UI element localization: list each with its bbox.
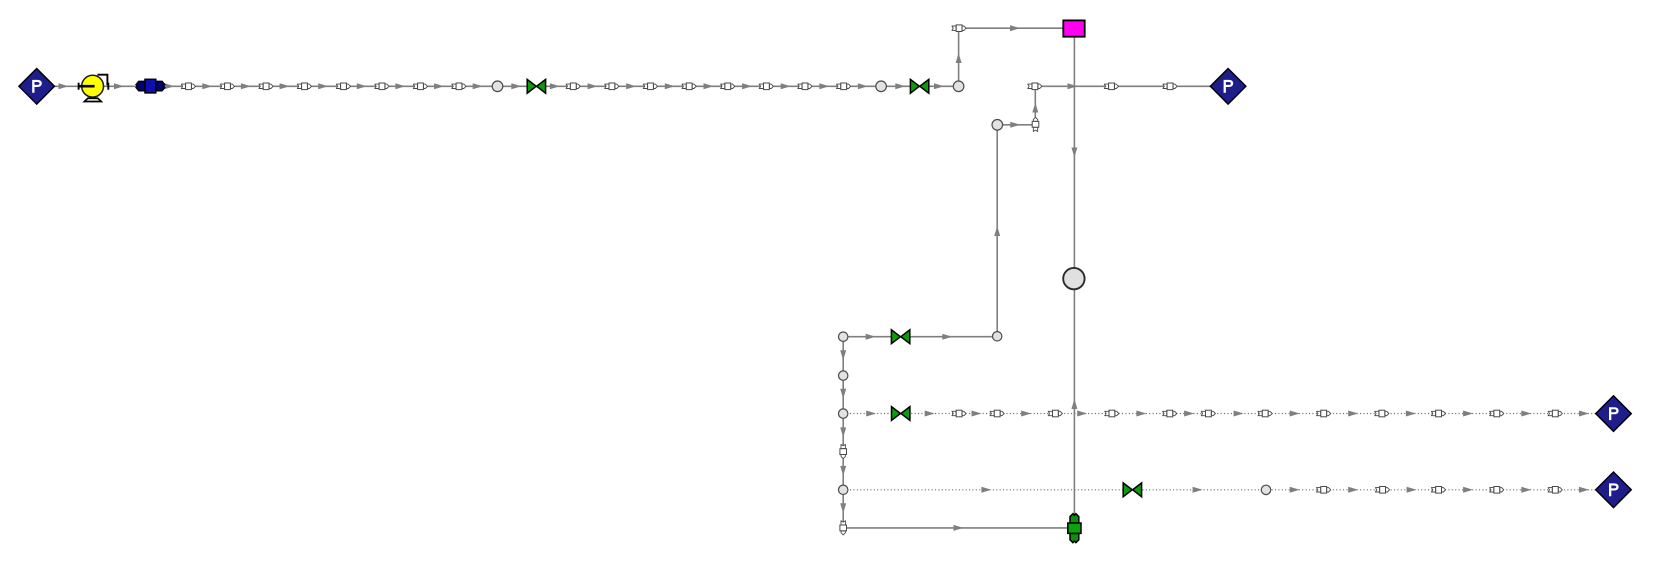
fitting symbol on main pipe	[336, 83, 350, 90]
wire riser from junction J10 up to fitting	[958, 28, 960, 86]
wire pipe to reservoir square	[959, 27, 1064, 29]
pressure junction J1 (inlet P diamond)	[19, 69, 55, 105]
junction node on main pipe at x881	[876, 81, 887, 92]
flow arrow on dotted pipe 1	[1136, 411, 1146, 417]
flow arrow on dotted pipe 2	[1290, 487, 1300, 493]
fitting symbol on main pipe	[566, 83, 580, 90]
flow arrow on dotted pipe 1	[1290, 411, 1300, 417]
fitting symbol on dotted pipe 2	[1548, 487, 1562, 494]
pressure junction J6 (dotted pipe 2 end P diamond)	[1596, 472, 1632, 508]
flow arrow on branch to tee	[1010, 122, 1020, 128]
reservoir (magenta square)	[1063, 20, 1084, 36]
flow arrow on dotted pipe 1	[972, 411, 982, 417]
junction node on dotted pipe 2 at x1266	[1261, 485, 1270, 494]
fitting symbol on main pipe	[220, 83, 234, 90]
flow arrow on pipe J13-J12	[866, 334, 876, 340]
fitting symbol on main pipe	[605, 83, 619, 90]
flow arrow on dotted pipe 1	[1348, 411, 1358, 417]
flow arrow on main pipe	[395, 83, 405, 89]
valve J18 on dotted pipe 2	[1123, 483, 1141, 497]
flow arrow on main pipe	[550, 83, 560, 89]
fitting symbol on main pipe	[837, 83, 851, 90]
fitting symbol on dotted pipe 1	[1258, 410, 1272, 417]
fitting symbol on pipe to J4	[1104, 83, 1118, 90]
flow arrow on dotted pipe 2	[1407, 487, 1417, 493]
flow arrow on dotted pipe 2	[1193, 487, 1203, 493]
component J3 (navy inline component)	[136, 79, 165, 93]
branch junction J19 large node on vertical pipe	[1063, 268, 1084, 289]
flow arrow on main pipe	[114, 83, 124, 89]
wire main pipe P1 horizontal run	[164, 85, 959, 87]
flow arrow on main pipe	[280, 83, 290, 89]
flow arrow on main pipe	[511, 83, 521, 89]
junction node on main pipe at x497	[492, 81, 503, 92]
flow arrow on main pipe	[241, 83, 251, 89]
fitting symbol on dotted pipe 1	[990, 410, 1004, 417]
fitting symbol on main pipe	[259, 83, 273, 90]
fitting symbol on dotted pipe 2	[1317, 487, 1331, 494]
flow arrow on dotted pipe 2	[1348, 487, 1358, 493]
junction node J12 corner	[993, 332, 1002, 341]
fitting symbol vertical on left chain	[840, 444, 847, 458]
flow arrow on dotted pipe 2	[1521, 487, 1531, 493]
junction node J10 corner of riser	[953, 81, 964, 92]
flow arrow down on left chain	[840, 389, 846, 399]
wire pipe from pump J2 to component J3	[104, 85, 137, 87]
flow arrow on main pipe	[819, 83, 829, 89]
flow arrow on pipe to junction J4	[1068, 83, 1078, 89]
flow arrow on main pipe	[742, 83, 752, 89]
wire dotted pipe from junction J15 to junction J5	[843, 413, 1596, 415]
flow arrow on dotted pipe 2	[1463, 487, 1473, 493]
flow arrow on dotted pipe 1	[1579, 411, 1589, 417]
fitting symbol at tee on pipe to J4	[1028, 83, 1042, 90]
flow arrow up on tee riser	[1032, 103, 1038, 113]
flow arrow down on left chain	[840, 427, 846, 437]
flow arrow on main pipe	[665, 83, 675, 89]
fitting symbol on main pipe	[375, 83, 389, 90]
pump J2	[79, 75, 109, 102]
flow arrow on dotted pipe 1	[1021, 411, 1031, 417]
junction node J13	[839, 332, 848, 341]
flow arrow on main pipe	[473, 83, 483, 89]
flow arrow on dotted pipe 2	[1579, 487, 1589, 493]
valve J9 on main pipe	[910, 79, 928, 93]
fitting symbol on dotted pipe 1	[1201, 410, 1215, 417]
flow arrow on dotted pipe 1	[1234, 411, 1244, 417]
flow arrow on main pipe	[318, 83, 328, 89]
flow arrow on pipe J13-J12 second	[942, 334, 952, 340]
wire branch from junction J11 to tee	[997, 124, 1035, 126]
flow arrow on main pipe	[895, 83, 905, 89]
flow arrow on main pipe	[858, 83, 868, 89]
flow arrow on dotted pipe 1	[1463, 411, 1473, 417]
junction node J15 start of dotted pipe 1	[839, 409, 848, 418]
wire vertical pipe from junction J11 down to junction J12	[996, 125, 998, 336]
wire riser from tee up to pipe at top	[1034, 86, 1036, 125]
fitting symbol on main pipe	[798, 83, 812, 90]
valve J8 on main pipe	[527, 79, 545, 93]
flow arrow on dotted pipe 1	[1406, 411, 1416, 417]
fitting symbol on dotted pipe 2	[1490, 487, 1504, 494]
flow arrow on dotted pipe 1	[1521, 411, 1531, 417]
flow arrow on dotted pipe 1	[866, 411, 876, 417]
fitting symbol near reservoir	[952, 25, 966, 32]
fitting symbol on dotted pipe 1	[1490, 410, 1504, 417]
flow arrow on main pipe	[59, 83, 69, 89]
flow arrow up between junctions J12 and J11	[994, 226, 1000, 236]
fitting symbol on dotted pipe 1	[952, 410, 966, 417]
fitting symbol on dotted pipe 1	[1431, 410, 1445, 417]
wire pipe from junction J1 to pump J2	[54, 85, 82, 87]
junction node J17 start of dotted pipe 2	[839, 485, 848, 494]
fitting symbol on main pipe	[721, 83, 735, 90]
fitting symbol on main pipe	[682, 83, 696, 90]
flow arrow on main pipe	[781, 83, 791, 89]
flow arrow toward reservoir	[1010, 25, 1020, 31]
fitting symbol on main pipe	[297, 83, 311, 90]
flow arrow on main pipe	[704, 83, 714, 89]
pressure junction J5 (dotted pipe 1 end P diamond)	[1596, 396, 1632, 432]
fitting symbol on dotted pipe 1	[1375, 410, 1389, 417]
flow arrow on main pipe	[934, 83, 944, 89]
flow arrow down on left chain	[840, 350, 846, 360]
fitting symbol on dotted pipe 1	[1163, 410, 1177, 417]
valve J14 on pipe J13-J12	[891, 330, 909, 344]
wire pipe to junction J4 at right	[1035, 85, 1211, 87]
fitting symbol on pipe to J4 second	[1163, 83, 1177, 90]
fitting symbol on dotted pipe 1	[1548, 410, 1562, 417]
wire dotted pipe from junction J17 to junction J6	[843, 489, 1596, 491]
valve J16 on dotted pipe 1	[892, 407, 910, 421]
fitting symbol on dotted pipe 2	[1431, 487, 1445, 494]
wire vertical pipe chain on left from junction J13 down	[842, 337, 844, 528]
wire bottom pipe from corner fitting to component J20	[843, 527, 1068, 529]
flow arrow on main pipe	[202, 83, 212, 89]
pressure junction J4 (right P diamond)	[1210, 69, 1246, 105]
fitting symbol on dotted pipe 1	[1048, 410, 1062, 417]
fitting symbol on main pipe	[643, 83, 657, 90]
fitting symbol vertical at bottom corner	[840, 521, 847, 535]
junction node on left chain x843 y375	[839, 371, 848, 380]
flow arrow on dotted pipe 1	[925, 411, 935, 417]
flow arrow on dotted pipe 1	[1077, 411, 1087, 417]
flow arrow on main pipe	[626, 83, 636, 89]
flow arrow down on left chain	[840, 503, 846, 513]
flow arrow on main pipe	[588, 83, 598, 89]
fitting symbol on main pipe	[413, 83, 427, 90]
fitting symbol on main pipe	[181, 83, 195, 90]
flow arrow on main pipe	[165, 83, 175, 89]
flow arrow down on left chain	[840, 466, 846, 476]
flow arrow on main pipe	[357, 83, 367, 89]
component J20 (green vertical component at bottom)	[1068, 514, 1081, 543]
junction node J11	[992, 120, 1003, 131]
wire pipe from junction J13 to junction J12	[843, 336, 997, 338]
fitting symbol on dotted pipe 1	[1317, 410, 1331, 417]
fitting symbol on main pipe	[452, 83, 466, 90]
wire main vertical pipe from reservoir down to component J20	[1073, 37, 1075, 514]
fitting symbol on dotted pipe 2	[1375, 487, 1389, 494]
fitting symbol vertical on tee riser	[1032, 117, 1039, 131]
flow arrow up on main vertical pipe	[1071, 399, 1077, 409]
fitting symbol on main pipe	[759, 83, 773, 90]
flow arrow down on main vertical pipe	[1071, 148, 1077, 158]
flow arrow up on riser	[956, 53, 962, 63]
flow arrow on bottom pipe	[954, 525, 964, 531]
flow arrow on dotted pipe 1	[1184, 411, 1194, 417]
flow arrow on main pipe	[434, 83, 444, 89]
flow arrow on dotted pipe 2	[981, 487, 991, 493]
fitting symbol on dotted pipe 1	[1105, 410, 1119, 417]
